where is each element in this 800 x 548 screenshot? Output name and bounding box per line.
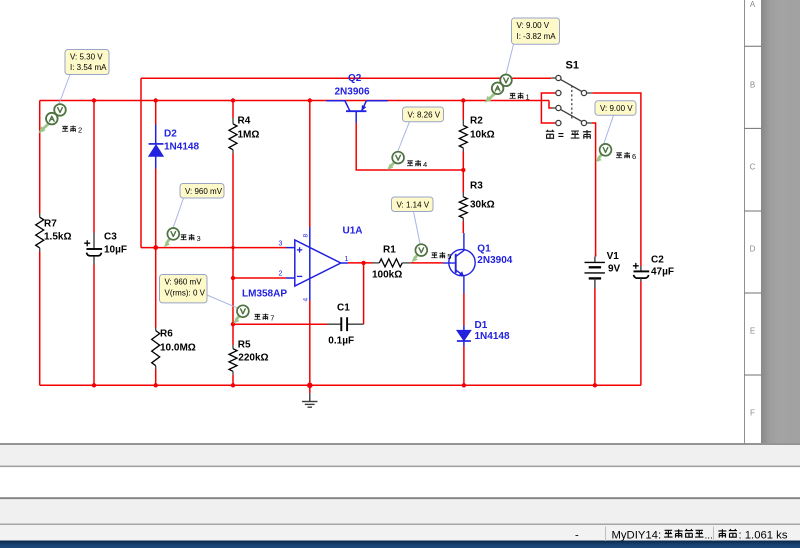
wire R1 right to Q1 base [411,262,443,264]
svg-text:2N3904: 2N3904 [477,255,512,266]
svg-text:F: F [750,409,755,418]
resistor R1 [373,259,411,267]
svg-text:220kΩ: 220kΩ [238,353,268,364]
wire opamp power top [309,101,311,228]
junction D1 bottom rail [462,383,466,387]
svg-text:6: 6 [632,152,636,161]
probe4 name [407,160,427,169]
resistor R5 [229,345,237,375]
svg-text:9V: 9V [608,264,621,275]
svg-text:V: 8.26 V: V: 8.26 V [408,110,441,119]
diode D1 [457,326,471,347]
svg-text:30kΩ: 30kΩ [470,200,495,211]
node output U1A [361,261,365,265]
box probe6 V [595,101,636,116]
svg-text:C1: C1 [337,303,350,314]
switch S1 [551,75,592,125]
svg-text:E: E [750,327,755,336]
wire R4 bottom to R5 top [232,153,234,345]
node B inverting input [231,276,235,280]
wire R4 top [232,101,234,119]
svg-text:B: B [750,81,755,90]
wire R3 bottom to Q1 collector [462,222,464,234]
svg-text:R6: R6 [160,329,173,340]
box probe3 V [180,184,224,199]
wire opamp noninverting input [141,247,286,249]
svg-text:47µF: 47µF [651,267,674,278]
svg-text:Q1: Q1 [477,244,491,255]
wire C2 bottom [640,282,642,386]
junction D2 top [154,98,158,102]
junction V1 bottom rail [593,383,597,387]
svg-text:1: 1 [526,93,530,102]
svg-text:2N3906: 2N3906 [335,87,370,98]
svg-text:U1A: U1A [343,226,363,237]
svg-text:4: 4 [303,298,310,302]
wire S1 lower throw down to V1 [592,123,596,256]
probe7 name [254,313,274,322]
probe5 name [431,252,451,261]
leader probe4 box [397,122,409,153]
wire node to R3 top [462,170,464,193]
junction R2 top [461,98,465,102]
svg-text:V: 960 mV: V: 960 mV [165,278,203,287]
wire C3 top [93,101,95,233]
probe 4 (V) [387,152,404,170]
svg-text:3: 3 [197,234,201,243]
svg-text:V: 1.14 V: V: 1.14 V [397,200,430,209]
label key = space [546,130,591,142]
wire C3 bottom [93,265,95,386]
wire feedback C1 left [233,323,327,325]
svg-text:D1: D1 [475,320,488,331]
box probe7 V/Vrms [160,275,208,303]
junction C3 top [92,98,96,102]
svg-text:4: 4 [423,160,427,169]
junction C3 bottom rail [92,383,96,387]
svg-text:10µF: 10µF [104,245,127,256]
capacitor C2 [633,263,649,282]
probe6 name [616,152,636,161]
junction op-amp V+ pin [308,98,312,102]
wire C1 right up to output [363,263,365,324]
svg-text:MyDIY14:: MyDIY14: [612,530,662,542]
svg-text:=: = [558,131,564,142]
svg-text:C: C [750,163,756,172]
probe 5 (V) [412,244,428,262]
resistor R6 [152,328,160,370]
svg-text:R3: R3 [470,181,483,192]
resistor R3 [459,193,467,222]
svg-text:S1: S1 [566,60,579,72]
wire D1 bottom [463,346,465,385]
svg-text:V(rms): 0 V: V(rms): 0 V [165,289,206,298]
wire left rail lower [39,252,41,386]
svg-text:10.0MΩ: 10.0MΩ [160,343,196,354]
svg-text:R7: R7 [44,219,57,230]
wire S1 right throw to C2 branch [592,93,641,266]
border row dividers [745,46,762,375]
leader probe7 box [207,295,238,308]
svg-text:0.1µF: 0.1µF [328,336,354,347]
svg-text:...: ... [705,531,713,542]
svg-text:100kΩ: 100kΩ [372,270,402,281]
svg-text:Q2: Q2 [348,73,362,84]
svg-text:R5: R5 [238,340,251,351]
capacitor C3 [84,233,102,265]
bottom chrome bands [0,443,800,445]
wire D2 top [155,101,157,125]
svg-text:D2: D2 [164,129,177,140]
svg-text:: 1.061 ks: : 1.061 ks [739,530,788,542]
node C feedback / R5 top [231,322,235,326]
wire opamp output to R1 [348,262,373,264]
wire R6 bottom [155,369,157,385]
junction R4 top [231,98,235,102]
svg-text:R2: R2 [470,116,483,127]
wire main horizontal rail [40,100,549,102]
node R2-R3 / Q2 base [461,168,465,172]
svg-text:V: 9.00 V: V: 9.00 V [600,104,633,113]
svg-text:1: 1 [345,256,349,263]
svg-text:1.5kΩ: 1.5kΩ [44,232,71,243]
box probe4 V [403,107,444,122]
wire R2 bottom to node [462,152,464,171]
wire bottom ground rail [40,384,641,386]
svg-text:10kΩ: 10kΩ [470,130,495,141]
box probe5 V [392,197,434,212]
svg-text:5: 5 [447,252,451,261]
wire opamp inverting input [233,277,286,279]
svg-text:C3: C3 [104,232,117,243]
junction ground rail [307,383,313,389]
svg-text:C2: C2 [651,255,664,266]
transistor Q2 [326,101,387,123]
status bar separators [605,527,607,542]
box probe2 V/I [65,50,109,75]
probe3 name [180,234,200,243]
wire left rail upper [39,101,41,214]
leader probe6 box [603,115,613,145]
probe 2 (A+V) [39,104,66,133]
probe 3 (V) [164,228,179,247]
probe name labels [62,92,636,322]
svg-text:LM358AP: LM358AP [242,289,287,300]
transistor Q1 [443,233,475,294]
probe 6 (V) [596,144,612,162]
battery V1 [585,257,605,289]
resistor R2 [459,120,467,152]
probe 7 (V) [233,305,249,323]
svg-text:V: 9.00 V: V: 9.00 V [517,21,550,30]
wire step into switch pole [549,101,552,109]
svg-text:D: D [750,245,756,254]
svg-text:R4: R4 [238,116,251,127]
wire R5 bottom [232,375,234,386]
wire top feedback loop horizontal [141,77,551,79]
svg-text:I: 3.54 mA: I: 3.54 mA [70,63,107,72]
junction R6 bottom rail [154,383,158,387]
svg-text:V1: V1 [607,251,620,262]
measurement boxes [65,18,636,303]
wire R2 top [462,101,464,120]
svg-text:-: - [575,530,579,542]
leader probe2 box [59,75,70,105]
junction crossing at R4 branch [231,246,234,249]
svg-text:V: 960 mV: V: 960 mV [185,187,223,196]
svg-text:2: 2 [78,126,82,135]
probe 1 (A+V) [485,75,512,103]
wire V1 top red above lead [595,254,597,257]
off-sheet gray area right [761,0,800,443]
svg-text:3: 3 [279,241,283,248]
probe2 name [62,125,82,134]
sheet border column line [744,0,746,443]
svg-text:A: A [750,0,756,9]
capacitor C1 [327,317,364,331]
border row letters [750,0,756,418]
box probe1 V/I [512,18,560,44]
leader probe3 box [173,198,184,229]
svg-text:1N4148: 1N4148 [164,142,199,153]
wire top feedback loop vertical left [140,78,142,247]
svg-text:7: 7 [270,314,274,323]
leader probe1 box [506,44,514,75]
resistor R7 [36,214,44,252]
svg-text:I: -3.82 mA: I: -3.82 mA [517,32,557,41]
svg-text:2: 2 [279,271,283,278]
op-amp U1A [286,227,348,301]
svg-text:8: 8 [303,234,310,238]
status bar text [575,529,788,541]
wire ground stub [309,385,311,393]
wire opamp power bottom to rail [309,301,311,386]
wire D2 to R6 node [155,169,157,328]
svg-text:1MΩ: 1MΩ [238,130,260,141]
resistor R4 [229,118,237,153]
diode D2 [149,125,164,169]
probe1 name [509,92,529,101]
wire S1 jumper left contacts [541,93,555,123]
svg-text:R1: R1 [383,245,396,256]
ground [302,393,318,407]
wire Q1 emitter to D1 [463,294,465,326]
svg-text:1N4148: 1N4148 [475,331,510,342]
wire V1 bottom [594,289,596,386]
junction R5 bottom rail [231,383,235,387]
leader probe5 box [414,212,421,245]
node A noninverting input / D2-R6 [153,245,158,250]
svg-text:V: 5.30 V: V: 5.30 V [70,53,103,62]
wire Q2 base down [356,123,463,170]
blue semiconductor labels [164,73,513,342]
